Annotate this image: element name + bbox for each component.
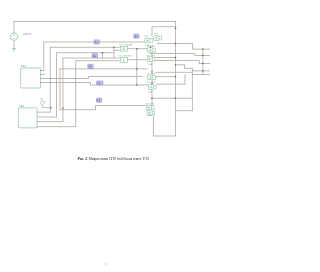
svg-text:DD2: DD2 (19, 105, 24, 108)
wire stage6 gate rail (60, 69, 145, 110)
svg-text:1,5А: 1,5А (148, 63, 153, 66)
wire stage3b output (155, 61, 210, 64)
wire source stem top (13, 21, 15, 33)
wire stage2 output (150, 47, 210, 55)
junction (175.5,57.6) (175, 57, 177, 59)
svg-text:A6: A6 (97, 98, 101, 102)
junction (113.9,47.3) (113, 47, 115, 49)
transistor VT2 (154, 34, 162, 41)
wire rail net1 (44, 42, 145, 71)
junction (150.3,47.3) (150, 47, 152, 49)
svg-text:VT7 VT8: VT7 VT8 (146, 103, 155, 105)
svg-text:1,5А: 1,5А (148, 91, 153, 94)
IC DD2 (19, 105, 38, 128)
crystal ZQ1 (40, 99, 45, 105)
wire vertical 4th C (62, 58, 64, 108)
junction (202.9,70.9) (202, 70, 204, 72)
junction (202.9,55.4) (202, 55, 204, 57)
svg-text:U1.2 555ЛА3: U1.2 555ЛА3 (119, 54, 133, 57)
wire gate2 output (128, 59, 148, 61)
transistor VT4 (146, 55, 155, 65)
net label X6 (134, 34, 139, 38)
wire transistor common vertical (151, 46, 153, 106)
gate DD1.2 (117, 54, 132, 62)
junction (175.5,28.3) (175, 28, 177, 30)
wire crystal tail (43, 105, 51, 108)
wire IC1 pin2 stub (41, 74, 45, 76)
wire stage5 output (157, 75, 186, 85)
wire rail M2 from IC1 pin3 (41, 77, 142, 79)
net label X1 (94, 40, 100, 44)
net label X3 (92, 54, 98, 58)
wire DD2 pin4 riser (37, 61, 76, 127)
svg-text:1: 1 (123, 58, 125, 62)
wire right drop vertical (191, 68, 193, 110)
svg-text:VT3 2ТВ: VT3 2ТВ (147, 46, 156, 48)
wire stage3 output to vertical (155, 57, 176, 59)
net label X4 (88, 64, 94, 68)
wire bottom hook (153, 116, 175, 136)
wire rail M1 (60, 68, 147, 70)
junction (51,107.8) (50, 107, 52, 109)
IC DD1 (21, 65, 41, 88)
wire stage4 output (156, 71, 193, 73)
wire right long vertical (175, 21, 177, 136)
junction (152,83.2) (151, 82, 153, 84)
gate DD1.1 (117, 43, 133, 51)
wire rail M3 from IC1 pin4 (41, 83, 149, 86)
transistor VT3 (147, 46, 156, 52)
voltage source G1 (10, 33, 17, 40)
svg-text:A3: A3 (93, 54, 97, 58)
junction (136.8,85) (136, 84, 138, 86)
wire right bus B (202, 49, 204, 74)
junction dots (50, 28, 204, 109)
svg-text:5: 5 (105, 262, 107, 266)
wire rail gate1 input A (50, 46, 117, 48)
svg-text:VT5 2ТВ: VT5 2ТВ (147, 74, 156, 76)
wire second rail to stage1 (152, 27, 176, 36)
wire vertical to DD2 pin2 (56, 53, 58, 117)
transistor VT5 (147, 74, 156, 80)
wire source stem bottom (13, 40, 15, 48)
net label X5 (97, 81, 104, 85)
wire stage4 exit (192, 70, 210, 72)
wire rail gate2 feed (57, 52, 114, 54)
svg-text:DD1: DD1 (21, 65, 26, 68)
ground (12, 49, 16, 52)
junction (175.5,76.8) (175, 76, 177, 78)
junction (202.9,63.5) (202, 63, 204, 65)
junction (202.9,49.1) (202, 48, 204, 50)
svg-text:A4: A4 (88, 65, 92, 69)
svg-text:A1: A1 (95, 40, 99, 44)
junction (102.4,52.7) (102, 52, 104, 54)
wire stage4b output (156, 76, 176, 78)
wire gate2 input A tie (101, 53, 103, 58)
svg-text:VT6 2ТВ: VT6 2ТВ (147, 82, 156, 84)
wire right drop foot (176, 110, 192, 112)
svg-text:ZQ: ZQ (40, 99, 43, 101)
wire IC1 pin1 stub (41, 70, 44, 72)
svg-text:A5: A5 (97, 81, 101, 85)
wire vertical to DD2 pin1 (49, 47, 51, 112)
wire gate1 output branch vertical (136, 49, 138, 85)
junction (136.8,68.9) (136, 68, 138, 70)
wire DD2 pin3 riser (37, 108, 63, 122)
wire top rail (14, 20, 176, 22)
transistor VT7 (146, 103, 155, 116)
svg-text:100 В: 100 В (23, 32, 31, 36)
net label X7 (96, 98, 102, 102)
wire DD2 pin1 stub (37, 111, 50, 113)
junction (152,98.1) (151, 97, 153, 99)
junction (175.5,43.6) (175, 43, 177, 45)
junction (136.8,48.7) (136, 48, 138, 50)
svg-text:U1.1 555ЛА3: U1.1 555ЛА3 (119, 43, 133, 46)
junction (175.5,98.1) (175, 97, 177, 99)
svg-text:B1: B1 (135, 34, 139, 38)
junction (175.5,64.9) (175, 64, 177, 66)
transistor VT1 (145, 36, 153, 47)
wire staircase (176, 65, 211, 75)
wire rail gate2 input A (63, 57, 117, 59)
wire gate1 output (128, 48, 148, 50)
junction (63,108) (62, 107, 64, 109)
junction (152,71.9) (151, 71, 153, 73)
svg-text:1,5А: 1,5А (147, 114, 152, 117)
wire stage1 output (158, 44, 211, 50)
svg-text:VT4 2ТВ: VT4 2ТВ (146, 55, 155, 57)
transistor VT6 (147, 82, 156, 93)
wire DD2 pin2 stub (37, 116, 57, 118)
wire gate2 input B (76, 60, 118, 62)
wire stage6 top rail (152, 97, 192, 99)
wire gate1 input B (114, 47, 117, 58)
